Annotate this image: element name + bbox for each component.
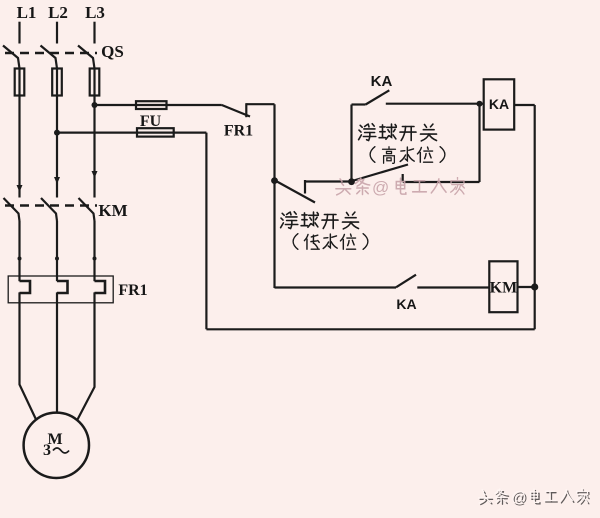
float switch SQ1 (low level) blade bbox=[276, 181, 315, 203]
relay FR1 NC contact blade bbox=[222, 105, 250, 117]
node dot L1 above FR1 bbox=[18, 257, 22, 261]
wire L3 incoming bbox=[93, 22, 95, 44]
watermark bottom right (embossed shadow layer) bbox=[480, 490, 589, 508]
contactor KM main contact pole 1 bbox=[4, 198, 20, 221]
relay coil KA box bbox=[484, 79, 515, 129]
motor M1 circle bbox=[24, 413, 89, 478]
node junction L2 control tap bbox=[54, 130, 60, 136]
wire KM coil to right rail bbox=[518, 286, 535, 288]
wire control left return (vertical) bbox=[205, 133, 207, 330]
svg-text:KM: KM bbox=[490, 280, 518, 297]
wire node A vertical drop bbox=[273, 104, 275, 288]
svg-text:KA: KA bbox=[489, 96, 509, 112]
wire L2 incoming bbox=[56, 22, 58, 44]
node C junction dot bbox=[477, 101, 483, 107]
contactor coil KM box bbox=[489, 261, 517, 312]
fuse FU pole 2 bbox=[52, 69, 62, 96]
node B junction dot bbox=[348, 178, 355, 185]
wire L2 tap to control fuse bbox=[57, 132, 206, 134]
switch QS pole 2 blade bbox=[41, 46, 58, 69]
contactor KM mechanical link (dashed) bbox=[5, 204, 97, 207]
thermal relay FR1 heater 2 bbox=[57, 281, 68, 293]
wire L2 KM to FR1 bbox=[56, 221, 58, 281]
switch QS pole 3 blade bbox=[78, 46, 95, 69]
wire KA contact to node C bbox=[386, 103, 480, 105]
wire node B up to KA contact bbox=[350, 105, 352, 182]
wire node A to KA contact (KM branch) bbox=[275, 286, 397, 288]
label float switch (high level) line 1 bbox=[359, 124, 437, 141]
fuse FU pole 1 bbox=[15, 69, 25, 96]
svg-text:L1: L1 bbox=[17, 3, 37, 22]
svg-text:KA: KA bbox=[396, 296, 416, 312]
label float switch (low level) line 2 bbox=[293, 234, 368, 250]
wire right branch vertical bbox=[478, 104, 480, 182]
svg-text:FR1: FR1 bbox=[224, 123, 253, 140]
switch QS pole 1 blade bbox=[3, 46, 20, 69]
relay KA NO contact (seal-in) blade bbox=[366, 90, 390, 104]
svg-text:@: @ bbox=[372, 178, 389, 197]
wire KA coil to right rail bbox=[514, 104, 535, 106]
fuse FU control 2 (horizontal) bbox=[137, 128, 174, 136]
wire bottom return bbox=[206, 328, 534, 330]
thermal relay FR1 box bbox=[8, 276, 113, 303]
fuse FU control 1 (horizontal) bbox=[136, 101, 167, 109]
wire FR1 contact to node A bbox=[246, 103, 274, 105]
arrow tick L2 bbox=[54, 177, 60, 184]
wire SQ2 to right branch bbox=[403, 181, 480, 183]
svg-text:FR1: FR1 bbox=[118, 282, 147, 299]
node dot L2 above FR1 bbox=[55, 257, 59, 261]
thermal relay FR1 heater 3 bbox=[95, 281, 106, 293]
svg-text:KA: KA bbox=[371, 73, 393, 90]
float switch SQ1 contact bar bbox=[304, 180, 306, 194]
arrow tick L1 bbox=[17, 185, 23, 192]
node D junction dot bbox=[531, 283, 538, 290]
wire node C into KA coil bbox=[480, 103, 484, 105]
wire SQ1 to node B bbox=[305, 180, 352, 182]
node A junction dot bbox=[271, 177, 278, 184]
svg-text:KM: KM bbox=[98, 201, 127, 220]
float switch SQ2 (high level) blade bbox=[352, 165, 408, 182]
thermal relay FR1 heater 1 bbox=[20, 281, 31, 293]
svg-text:L2: L2 bbox=[48, 3, 68, 22]
svg-text:L3: L3 bbox=[85, 3, 105, 22]
wire L3 fuse to KM contact bbox=[93, 96, 95, 198]
svg-text:3: 3 bbox=[43, 442, 51, 459]
watermark bottom right (light face layer) bbox=[479, 488, 588, 506]
relay FR1 NC contact bar bbox=[245, 103, 247, 117]
wire L1 fuse to KM contact bbox=[18, 96, 20, 198]
fuse FU pole 3 bbox=[90, 69, 100, 96]
contactor KM main contact pole 3 bbox=[79, 198, 95, 221]
svg-text:QS: QS bbox=[101, 42, 124, 61]
motor M1 tilde bbox=[53, 448, 69, 453]
watermark center bbox=[336, 177, 464, 197]
wire L3 tap to control fuse bbox=[95, 104, 222, 106]
wire KA contact to KM coil bbox=[417, 286, 489, 288]
wire L1 KM to FR1 bbox=[18, 221, 20, 281]
node dot L3 above FR1 bbox=[93, 257, 97, 261]
svg-text:@: @ bbox=[511, 489, 526, 506]
contactor KM main contact pole 2 bbox=[41, 198, 57, 221]
wire L3 FR1 to motor bbox=[78, 292, 95, 419]
switch QS mechanical link (dashed) bbox=[5, 52, 97, 55]
node junction L3 control tap bbox=[92, 102, 98, 108]
relay KA NO contact (seal-in) left lead bbox=[352, 103, 366, 105]
label float switch (low level) line 1 bbox=[281, 212, 359, 229]
arrow tick L3 bbox=[92, 171, 98, 178]
wire L3 KM to FR1 bbox=[93, 221, 95, 281]
wire L2 FR1 to motor bbox=[56, 292, 58, 412]
wire right rail vertical bbox=[534, 105, 536, 329]
wire L1 incoming bbox=[18, 22, 20, 44]
wire L2 fuse to KM contact bbox=[56, 96, 58, 198]
label float switch (high level) line 2 bbox=[370, 147, 445, 164]
float switch SQ2 contact bar bbox=[402, 174, 404, 182]
relay KA NO contact (KM branch) blade bbox=[396, 275, 416, 288]
wire L1 FR1 to motor bbox=[20, 292, 37, 420]
